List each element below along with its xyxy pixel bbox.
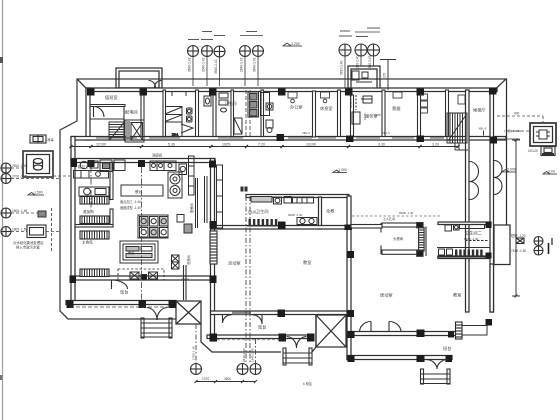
svg-text:12100: 12100 xyxy=(96,143,106,147)
partition x262 xyxy=(261,90,264,137)
svg-text:XBL-6: XBL-6 xyxy=(382,131,390,135)
svg-text:XBL-6: XBL-6 xyxy=(181,277,189,281)
hall south wall east piece xyxy=(351,225,382,229)
bay2 protrusion top xyxy=(348,66,380,89)
right equipment box xyxy=(530,123,556,146)
svg-text:20120: 20120 xyxy=(528,149,538,153)
svg-text:1925: 1925 xyxy=(363,113,367,120)
svg-text:1840-1.40: 1840-1.40 xyxy=(251,348,255,362)
top axis circles xyxy=(188,44,380,57)
partition x339 xyxy=(338,90,341,137)
bay1 protrusion top xyxy=(116,68,162,88)
corridor east arcs wall1 xyxy=(470,162,479,182)
svg-text:5.30: 5.30 xyxy=(168,143,175,147)
urinal row xyxy=(247,225,278,227)
canopy center wing west xyxy=(201,324,281,352)
dark hatched bar west of classroom xyxy=(210,231,217,264)
corridor east arcs wall2 xyxy=(494,161,502,178)
porch hidden dashed line xyxy=(217,339,278,341)
svg-text:餐台: 餐台 xyxy=(128,250,134,255)
svg-text:票据: 票据 xyxy=(392,105,400,112)
svg-text:1805 -1.58: 1805 -1.58 xyxy=(12,228,27,232)
columns top wall xyxy=(87,89,95,96)
windows in band south wall xyxy=(96,137,444,139)
partition x352 xyxy=(351,95,354,137)
pot unit xyxy=(79,187,109,196)
right porch ladder xyxy=(421,369,424,384)
partition x124 xyxy=(123,106,125,140)
bay1 double door xyxy=(149,81,156,88)
top wall of north band xyxy=(86,88,497,92)
right mid circles xyxy=(516,237,552,256)
svg-text:教室: 教室 xyxy=(453,292,461,299)
scan mark top-left xyxy=(0,57,3,63)
east classroom west wall xyxy=(347,196,351,360)
scan mark bottom-left xyxy=(0,375,3,380)
left axis circles and leaders xyxy=(1,163,11,237)
central vertical wall A xyxy=(211,159,215,342)
left hatched box xyxy=(38,211,46,217)
columns center porch xyxy=(210,334,218,342)
left tank 1 xyxy=(23,151,53,177)
long counter near wall A xyxy=(189,156,195,195)
svg-text:3840-1.40: 3840-1.40 xyxy=(349,94,353,108)
right wing north wall xyxy=(347,332,456,336)
svg-text:7.20: 7.20 xyxy=(258,143,265,147)
level mark top xyxy=(283,43,302,46)
columns br toilet xyxy=(486,222,492,228)
canopy outline west and south xyxy=(77,79,506,121)
svg-text:候梯厅: 候梯厅 xyxy=(473,107,486,114)
west outer wall of kitchen section xyxy=(71,137,75,305)
left porch arcs xyxy=(147,308,158,321)
svg-text:1700: 1700 xyxy=(202,377,209,381)
east corridor wall west xyxy=(466,90,470,312)
axis dash verticals kitchen xyxy=(91,167,142,300)
right wing south wall xyxy=(347,356,452,360)
svg-text:教室: 教室 xyxy=(303,259,311,266)
hall small glyph xyxy=(241,187,244,192)
bay2 interior fixtures xyxy=(352,71,372,124)
svg-text:3815-1.40: 3815-1.40 xyxy=(340,60,344,75)
svg-text:大便间: 大便间 xyxy=(393,236,404,241)
svg-text:XBL-6: XBL-6 xyxy=(302,131,310,135)
east small room box xyxy=(494,225,510,265)
partition x214 xyxy=(213,95,216,137)
kitchen equipment xyxy=(74,156,208,280)
svg-text:2840-1.40: 2840-1.40 xyxy=(242,348,246,362)
svg-text:上人孔间: 上人孔间 xyxy=(383,216,395,221)
right tall dimension line xyxy=(512,139,520,298)
svg-text:现台: 现台 xyxy=(120,289,128,296)
br toilet fixtures xyxy=(445,225,489,241)
dimension texts mid xyxy=(96,143,439,147)
svg-text:短期 -1.20: 短期 -1.20 xyxy=(511,233,526,238)
svg-text:XBL-6: XBL-6 xyxy=(479,127,487,131)
partition x447 xyxy=(446,90,449,137)
svg-text:3008 -1.40: 3008 -1.40 xyxy=(288,213,303,217)
svg-text:-1.500: -1.500 xyxy=(33,191,43,195)
left porch ladder xyxy=(141,318,144,338)
svg-text:2840-1.42: 2840-1.42 xyxy=(240,57,244,72)
west wall of north band xyxy=(86,88,90,140)
kitchen partition walls xyxy=(75,163,186,301)
partition x196 xyxy=(196,90,199,137)
svg-text:值班室: 值班室 xyxy=(105,94,118,101)
kitchen hatch row 4 xyxy=(80,269,109,277)
svg-text:(一层) 20120: (一层) 20120 xyxy=(504,128,522,133)
svg-text:消毒: 消毒 xyxy=(47,137,54,142)
svg-text:3840-1.42: 3840-1.42 xyxy=(253,57,257,72)
ramp outline east xyxy=(462,326,487,336)
svg-text:居动室: 居动室 xyxy=(380,292,393,299)
svg-text:400: 400 xyxy=(514,112,520,116)
svg-text:活动室: 活动室 xyxy=(228,260,241,267)
svg-text:排入市政污水管: 排入市政污水管 xyxy=(16,245,40,250)
hall dashed leader xyxy=(352,215,442,217)
svg-text:7810 -1.20: 7810 -1.20 xyxy=(12,164,27,168)
kitchen north wall xyxy=(71,159,215,163)
washroom structure in hall xyxy=(381,223,426,257)
hatched ramp bar east xyxy=(456,322,463,339)
columns east classroom wall xyxy=(347,251,354,258)
scan border left edge xyxy=(2,0,4,420)
drains xyxy=(130,272,139,279)
steamer carts xyxy=(177,215,192,234)
stairs and elevator xyxy=(109,106,468,150)
svg-text:休息室: 休息室 xyxy=(320,105,333,112)
classroom south wall xyxy=(211,311,350,315)
kitchen south hidden line xyxy=(70,306,170,308)
stair 1 treads xyxy=(109,122,125,140)
ghost dashed equipment xyxy=(118,269,164,280)
svg-text:面团成型 -1.40: 面团成型 -1.40 xyxy=(120,205,141,210)
sink row east classroom xyxy=(437,248,490,258)
center porch south wall xyxy=(207,335,313,339)
doors and arcs xyxy=(94,81,503,370)
svg-text:170: 170 xyxy=(383,72,387,78)
columns kitchen south wall xyxy=(67,301,74,309)
center porch ladder xyxy=(283,348,286,365)
svg-text:3600: 3600 xyxy=(224,377,231,381)
svg-text:备餐间: 备餐间 xyxy=(189,203,194,213)
svg-text:3.30: 3.30 xyxy=(378,143,385,147)
classroom north wall xyxy=(211,226,351,230)
burners xyxy=(168,172,182,198)
partition x142 xyxy=(141,95,144,137)
bottom axis circles xyxy=(191,364,262,375)
left dashed leaders xyxy=(11,168,71,252)
island 1 xyxy=(121,185,163,196)
svg-text:2040-1.40: 2040-1.40 xyxy=(356,55,360,70)
room labels xyxy=(78,94,486,352)
canopy hip corner SE of center wing xyxy=(312,315,346,352)
svg-text:洗碗间: 洗碗间 xyxy=(152,153,163,158)
east corridor wall east upper xyxy=(490,90,494,312)
right dashed leader xyxy=(497,116,543,131)
svg-text:3.20: 3.20 xyxy=(432,143,439,147)
right small screen xyxy=(541,147,555,156)
left equipment: disinfect box xyxy=(30,135,46,143)
svg-text:3840-1.42: 3840-1.42 xyxy=(214,59,218,74)
svg-text:9998 -1.40: 9998 -1.40 xyxy=(399,211,414,215)
br toilet north wall xyxy=(438,222,491,225)
door duty room xyxy=(94,107,105,118)
svg-text:2040-1.42: 2040-1.42 xyxy=(202,57,206,72)
center porch arcs xyxy=(287,337,297,349)
svg-text:9998 -1.40: 9998 -1.40 xyxy=(464,237,479,241)
north toilets small fixtures xyxy=(172,92,273,137)
misc dashed section line verticals top xyxy=(246,90,250,136)
north band partition x104 horizontal wall xyxy=(90,105,125,107)
bottom dimension line xyxy=(195,380,258,383)
kitchen hatch row 1 xyxy=(80,197,109,205)
hall level mark xyxy=(333,170,347,173)
columns mid xyxy=(210,221,217,229)
corner X boxes xyxy=(172,255,180,262)
center toilet block fixtures xyxy=(247,197,314,227)
svg-text:卫生间--: 卫生间-- xyxy=(247,209,258,214)
svg-text:污水经化粪池处理后: 污水经化粪池处理后 xyxy=(13,240,44,245)
kitchen hatch row 2 xyxy=(80,216,109,224)
elevator shaft xyxy=(125,120,144,142)
svg-text:班台: 班台 xyxy=(443,345,451,352)
br toilet south wall xyxy=(438,256,489,259)
axis dashed verticals xyxy=(196,196,256,364)
stall partitions top toilets xyxy=(165,106,182,108)
island 2 xyxy=(120,241,158,263)
left level mark xyxy=(28,193,44,196)
partition x309 xyxy=(313,91,316,137)
kitchen door arc xyxy=(112,280,128,289)
toilet block north wall xyxy=(246,195,349,198)
left tank 2 xyxy=(27,225,46,238)
svg-text:-1.000: -1.000 xyxy=(337,168,347,172)
partition x419 xyxy=(418,95,421,137)
svg-text:-2.000: -2.000 xyxy=(506,168,516,172)
svg-text:-1.200: -1.200 xyxy=(290,42,300,46)
right level marks xyxy=(502,170,557,175)
classroom south doors xyxy=(222,315,224,324)
svg-text:b 校区: b 校区 xyxy=(303,381,313,386)
svg-text:现台: 现台 xyxy=(258,324,266,331)
kitchen hatch row 3 xyxy=(80,231,109,239)
east outer wall line xyxy=(506,79,508,256)
sinks pair xyxy=(297,218,317,226)
serving window wall xyxy=(196,165,223,228)
porch ladders xyxy=(141,318,450,384)
svg-text:1700-1.40: 1700-1.40 xyxy=(192,346,196,360)
kitchen south wall xyxy=(66,301,176,305)
partition x384 xyxy=(382,90,385,137)
right porch arc xyxy=(426,360,438,370)
svg-text:配电间: 配电间 xyxy=(125,109,138,116)
svg-text:洗消间: 洗消间 xyxy=(186,255,191,265)
svg-text:主食库: 主食库 xyxy=(82,240,93,245)
top rotated dim texts xyxy=(188,55,387,78)
top axis leaders xyxy=(188,28,396,90)
svg-text:7510 -1.50: 7510 -1.50 xyxy=(511,249,526,253)
columns kitchen north wall xyxy=(71,159,78,167)
svg-text:全教: 全教 xyxy=(326,208,335,215)
columns right wing xyxy=(348,331,355,338)
top dim ticks xyxy=(188,39,199,41)
svg-text:面点加工 -1.40: 面点加工 -1.40 xyxy=(120,199,141,204)
right wing doors xyxy=(360,322,372,333)
toilet block east wall xyxy=(319,197,322,229)
columns band south wall xyxy=(277,134,285,141)
svg-text:卫生间二: 卫生间二 xyxy=(465,230,482,237)
svg-text:-2.00: -2.00 xyxy=(547,170,555,174)
kitchen mid wall xyxy=(71,276,215,280)
svg-text:1840-1.45: 1840-1.45 xyxy=(368,55,372,70)
svg-text:1925: 1925 xyxy=(374,113,381,117)
column center south xyxy=(278,310,286,318)
office furniture north band xyxy=(288,92,465,113)
svg-text:XB-1: XB-1 xyxy=(172,133,179,137)
canopy corner pavilion SW xyxy=(176,301,201,324)
svg-text:19100: 19100 xyxy=(306,143,316,147)
east corridor wall east lower xyxy=(490,264,494,312)
stair 2 east xyxy=(447,113,467,143)
svg-text:蒸饭间: 蒸饭间 xyxy=(83,209,94,214)
dimension string mid xyxy=(70,145,460,148)
svg-text:办公室: 办公室 xyxy=(290,104,303,111)
svg-text:3840-1.42: 3840-1.42 xyxy=(188,57,192,72)
svg-text:1925: 1925 xyxy=(222,143,230,147)
partition x164 xyxy=(163,90,166,137)
svg-text:1805 -1.56: 1805 -1.56 xyxy=(12,209,27,213)
oven cluster xyxy=(138,215,168,238)
south wall of north band xyxy=(71,137,506,141)
svg-text:卫生间: 卫生间 xyxy=(224,100,237,107)
columns kitchen mid wall xyxy=(70,276,77,284)
partition x232 xyxy=(231,90,234,137)
